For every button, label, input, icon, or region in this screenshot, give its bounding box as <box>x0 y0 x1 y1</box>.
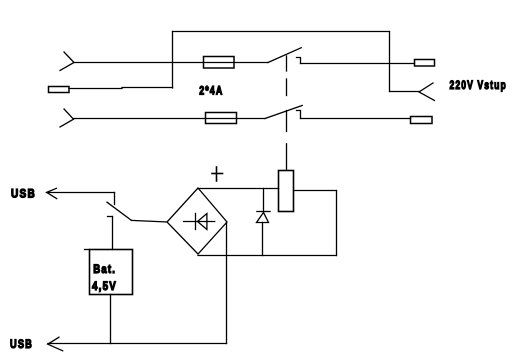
wire rail left vertical <box>172 32 174 89</box>
arrow USB bottom <box>48 337 63 351</box>
wire rail top horizontal <box>173 31 390 33</box>
wire bridge plus to relay coil <box>198 188 279 190</box>
wire rail to 220V prong <box>390 91 420 93</box>
wire L input to fuse F1 <box>74 62 268 64</box>
switch S1b arm <box>265 106 302 119</box>
wire N input to fuse F2 <box>74 118 266 120</box>
diode D1 <box>257 212 271 223</box>
arrow USB top <box>47 188 57 198</box>
fuse F1 <box>204 57 235 69</box>
svg-text:4,5V: 4,5V <box>92 279 117 293</box>
battery BAT1 <box>85 250 133 295</box>
switch S1a arm <box>268 48 301 63</box>
wire S1a to lug X3 <box>301 63 415 65</box>
bridge rectifier B1 <box>167 188 227 254</box>
wire battery to USB gnd <box>110 295 112 344</box>
wire USB top corner down <box>114 193 116 205</box>
wire rail right vertical <box>389 32 391 92</box>
wire S2 to bridge left <box>131 220 167 222</box>
switch S1b fixed contact <box>297 111 301 119</box>
connector prong X4 (mains plug pin N) <box>60 109 74 127</box>
connector lug X2 (earth) <box>49 87 70 93</box>
wire diode D1 to bottom loop <box>262 223 264 256</box>
connector prong X1 (mains plug pin L) <box>60 52 74 71</box>
svg-text:2*4A: 2*4A <box>199 84 223 98</box>
switch S2 battery contact <box>108 216 113 218</box>
svg-text:USB: USB <box>11 186 36 200</box>
switch S2 arm <box>107 202 131 220</box>
relay coil K1 <box>279 171 294 212</box>
switch S1a fixed contact <box>297 58 301 64</box>
wire loop right vertical <box>336 191 338 256</box>
svg-text:220V Vstup: 220V Vstup <box>450 78 507 92</box>
svg-text:USB: USB <box>10 337 33 351</box>
svg-text:Bat.: Bat. <box>93 262 116 276</box>
connector lug X6 (bottom right) <box>411 117 433 124</box>
wire USB top horizontal <box>47 192 115 194</box>
mechanical link dashed (switch to relay) <box>286 56 288 132</box>
wire bridge output down to USB gnd <box>226 222 228 344</box>
wire junction to diode D1 <box>263 189 265 212</box>
plus polarity mark <box>212 167 223 181</box>
connector lug X3 (top right) <box>415 60 435 67</box>
wire earth lug to rail <box>69 88 173 89</box>
wire link to relay coil <box>286 144 288 170</box>
fuse F2 <box>206 113 237 124</box>
connector prong X5 (220V) <box>419 83 435 101</box>
wire S1b to lug X6 <box>301 118 411 120</box>
wire loop bottom <box>198 255 337 257</box>
wire USB bottom horizontal <box>48 343 227 345</box>
wire S2 contact to battery <box>112 217 114 250</box>
wire relay coil right <box>294 190 337 192</box>
